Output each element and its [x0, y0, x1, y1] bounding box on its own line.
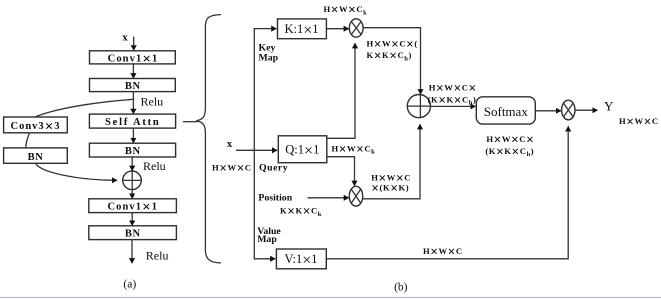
block Softmax — [476, 97, 535, 124]
adder circle-plus left — [123, 171, 142, 190]
wire BN to adder — [131, 157, 133, 171]
wire position to mult2 — [308, 197, 349, 199]
svg-text:Relu: Relu — [141, 95, 164, 109]
multiplier K circle-x — [349, 19, 363, 37]
wire SelfAttn to BN — [132, 128, 134, 143]
svg-text:BN: BN — [125, 81, 141, 92]
svg-text:BN: BN — [125, 146, 141, 157]
block BN 1 — [90, 79, 176, 93]
block BN 2 — [89, 143, 175, 157]
wire adder to Conv1x1 bottom — [131, 190, 133, 199]
svg-text:Softmax: Softmax — [484, 104, 529, 119]
svg-text:Map: Map — [259, 53, 279, 64]
wire V to mult3 — [326, 126, 568, 258]
svg-text:Map: Map — [257, 234, 277, 245]
svg-text:Self Attn: Self Attn — [105, 117, 161, 128]
svg-text:H×W×C×: H×W×C× — [486, 132, 534, 147]
svg-text:(b): (b) — [394, 282, 408, 294]
wire trunk to V — [254, 258, 276, 260]
wire mult1 to adder b — [363, 28, 420, 95]
multiplier position circle-x — [349, 186, 362, 206]
brace left of b — [196, 15, 221, 263]
svg-text:Relu: Relu — [146, 249, 169, 263]
block Conv1x1 bottom — [89, 199, 177, 215]
svg-text:H×W×C×: H×W×C× — [429, 80, 477, 95]
multiplier output circle-x — [562, 100, 575, 120]
block Conv1x1 top — [90, 51, 176, 67]
svg-text:Query: Query — [259, 163, 288, 174]
block BN bottom — [89, 226, 177, 240]
wire trunk vertical — [253, 29, 255, 259]
block BN left — [4, 148, 68, 163]
svg-text:Position: Position — [258, 192, 292, 203]
svg-text:(a): (a) — [123, 279, 136, 291]
block K:1x1 — [278, 19, 327, 39]
wire x to Conv1x1 — [133, 37, 135, 51]
wire output a — [131, 240, 133, 264]
block Q:1x1 — [278, 136, 327, 163]
adder b circle-plus — [407, 95, 430, 118]
wire Conv3x3 to BN left — [26, 133, 30, 148]
wire BN left to adder — [36, 163, 118, 180]
wire mult2 to adder b — [363, 124, 420, 199]
wire softmax to mult3 — [535, 110, 561, 112]
wire branch to Conv3x3 — [36, 99, 133, 116]
svg-text:BN: BN — [125, 229, 141, 240]
svg-text:Y: Y — [604, 99, 614, 114]
wire adder to softmax — [431, 105, 476, 107]
wire Q down to mult2 — [327, 157, 355, 186]
wire mult3 to Y — [575, 109, 598, 111]
wire Conv1x1 to BN — [132, 64, 134, 78]
svg-text:x: x — [122, 32, 128, 44]
wire Conv1x1 to BN bottom — [131, 213, 133, 226]
block V:1x1 — [276, 249, 326, 269]
svg-text:Relu: Relu — [143, 159, 166, 173]
wire trunk to K — [254, 28, 277, 30]
wire K to mult1 — [326, 28, 348, 30]
block Self Attn — [89, 114, 175, 128]
wire Q up to mult1 — [327, 43, 355, 138]
wire BN to SelfAttn — [132, 92, 134, 114]
wire SelfAttn to brace — [183, 121, 198, 123]
bottom divider — [0, 296, 661, 298]
wire x to Q — [236, 149, 277, 151]
svg-text:BN: BN — [28, 152, 44, 163]
block Conv3x3 — [4, 117, 68, 135]
svg-text:x: x — [227, 139, 233, 150]
